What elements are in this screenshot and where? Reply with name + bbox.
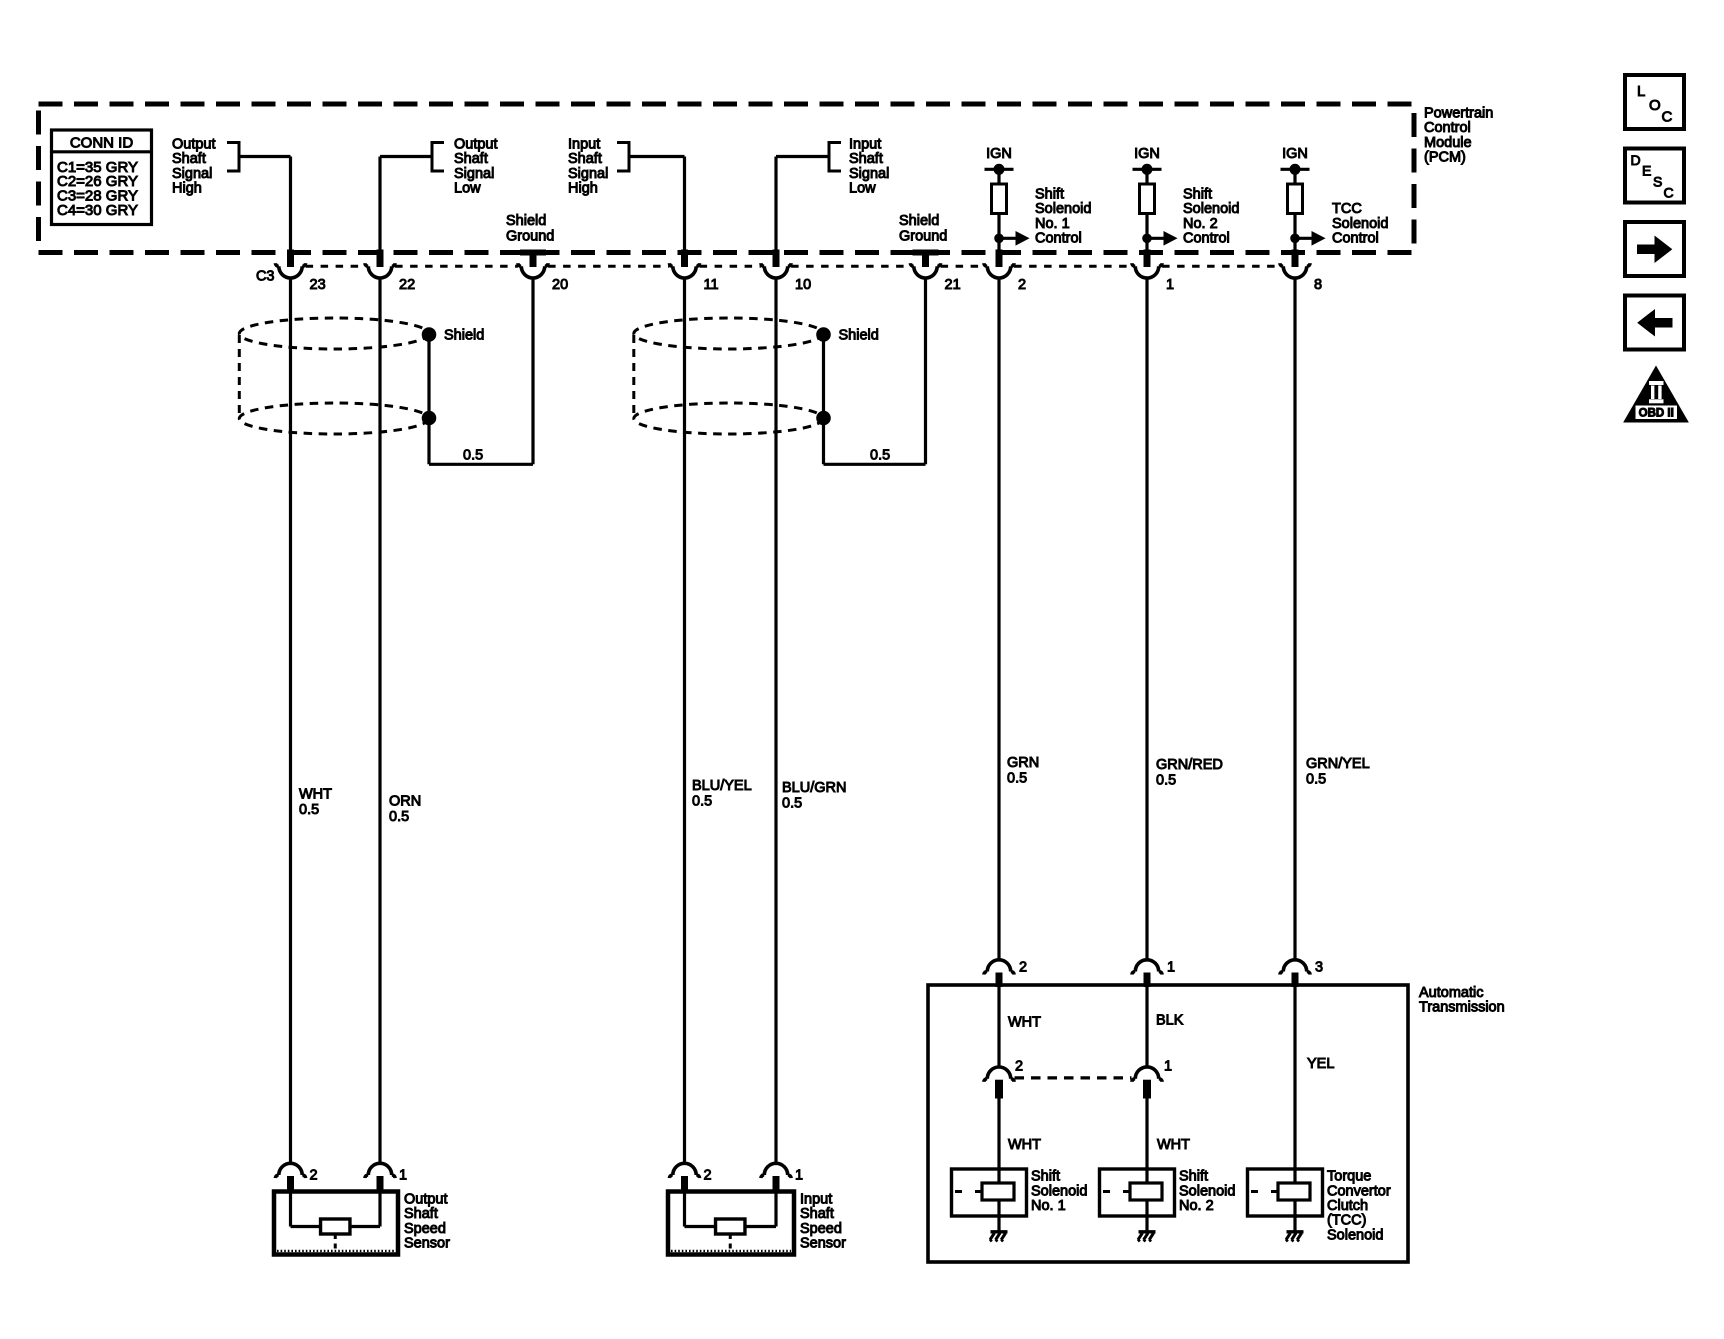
svg-text:2: 2 [1015,1059,1023,1075]
svg-text:BLK: BLK [1156,1013,1184,1029]
svg-text:(TCC): (TCC) [1327,1213,1366,1229]
solenoid Shift No. 2 box [1100,1169,1175,1216]
shield ground pigtail stub at border (pin 20) [521,250,546,255]
solenoid coil [1278,1183,1310,1200]
connector C3 cavity 1 [1144,250,1150,267]
svg-text:0.5: 0.5 [1007,771,1027,787]
svg-text:1: 1 [399,1168,407,1184]
svg-text:TCC: TCC [1332,201,1362,217]
connector pin 1 of Input sensor [761,1163,791,1178]
svg-text:2: 2 [704,1168,712,1184]
svg-text:WHT: WHT [1008,1015,1041,1031]
svg-text:WHT: WHT [1157,1137,1190,1153]
connector C3 cavity 10 [773,250,779,267]
svg-text:0.5: 0.5 [463,448,483,464]
PCM driver (resistor) symbol at x=1295 [1288,184,1303,214]
wire BLK inside transmission [1145,987,1148,1068]
svg-text:Shaft: Shaft [568,151,602,167]
svg-text:Module: Module [1424,135,1472,151]
svg-text:0.5: 0.5 [1156,773,1176,789]
svg-text:IGN: IGN [986,146,1012,162]
wire BLU/GRN 0.5 (pin 10 to input sensor pin 1) [774,278,777,1163]
svg-text:22: 22 [399,277,415,293]
wire to pin 22 [432,143,444,172]
svg-text:Output: Output [404,1191,448,1207]
svg-text:Transmission: Transmission [1419,1000,1505,1016]
svg-text:D: D [1631,152,1641,168]
output arrow at x=999 [999,237,1017,240]
svg-text:Shaft: Shaft [454,151,488,167]
wire ORN 0.5 (pin 22 to output sensor pin 1) [378,278,381,1163]
solenoid coil [1130,1183,1162,1200]
svg-text:Signal: Signal [172,166,212,182]
transmission connector pin 1 [1132,960,1162,975]
svg-text:Solenoid: Solenoid [1183,201,1239,217]
svg-text:WHT: WHT [1008,1137,1041,1153]
wire YEL to TCC solenoid [1293,1169,1296,1183]
svg-text:0.5: 0.5 [782,796,802,812]
svg-text:Signal: Signal [454,166,494,182]
svg-text:Input: Input [800,1191,832,1207]
svg-text:Shift: Shift [1183,186,1212,202]
svg-text:No. 2: No. 2 [1183,216,1218,232]
svg-text:Shield: Shield [444,328,484,344]
wire to pin 23 [227,143,239,172]
svg-text:Shaft: Shaft [172,151,206,167]
svg-text:Powertrain: Powertrain [1424,105,1493,121]
svg-text:Shift: Shift [1035,186,1064,202]
connector pin 1 of Output sensor [365,1163,395,1178]
Output Shaft Speed Sensor box [274,1192,398,1255]
wire through solenoid [1145,1200,1148,1231]
wire GRN 0.5 (pin 2 to transmission pin 2) [997,278,1000,960]
svg-text:IGN: IGN [1282,146,1308,162]
svg-text:Shield: Shield [506,213,546,229]
wire GRN/RED 0.5 (pin 1 to transmission pin 1) [1145,278,1148,960]
svg-text:OBD II: OBD II [1639,408,1674,420]
svg-text:L: L [1637,83,1645,100]
solenoid TCC Solenoid box [1248,1169,1323,1216]
chassis ground [1287,1230,1304,1233]
svg-text:1: 1 [1164,1059,1172,1075]
connector C3 cavity 8 [1292,250,1298,267]
svg-text:10: 10 [795,277,811,293]
sensor coil (resistor) [716,1219,745,1234]
svg-text:Sensor: Sensor [404,1235,450,1251]
svg-text:ORN: ORN [389,793,421,809]
connector C3 cavity 22 [377,250,383,267]
svg-text:3: 3 [1315,960,1323,976]
svg-text:Low: Low [849,180,876,196]
icon back arrow box [1625,296,1684,350]
shield cylinder (dashed) around wire pair near x=334 [239,318,428,349]
sensor coil (resistor) [321,1219,350,1234]
svg-text:Shaft: Shaft [800,1206,834,1222]
svg-text:Ground: Ground [506,229,554,245]
solenoid Shift No. 1 box [952,1169,1027,1216]
svg-text:Output: Output [454,136,498,152]
svg-text:Shaft: Shaft [404,1206,438,1222]
icon forward arrow box [1625,222,1684,276]
svg-text:Ground: Ground [899,229,947,245]
svg-text:Clutch: Clutch [1327,1198,1368,1214]
svg-text:High: High [568,180,598,196]
icon DESC box [1625,149,1684,203]
transmission connector pin 3 [1280,960,1310,975]
wire WHT to shift solenoid 1 [997,1098,1000,1183]
icon OBD II triangle [1624,367,1688,423]
svg-text:Input: Input [849,136,881,152]
connector C3 cavity 21 [923,250,929,267]
svg-text:Solenoid: Solenoid [1327,1227,1383,1243]
PCM driver (resistor) symbol at x=999 [992,184,1007,214]
wire WHT to shift solenoid 2 [1145,1098,1148,1183]
svg-text:Shaft: Shaft [849,151,883,167]
svg-text:Convertor: Convertor [1327,1183,1391,1199]
connector C3 cavity 20 [530,250,536,267]
svg-text:0.5: 0.5 [1306,772,1326,788]
svg-text:Shift: Shift [1179,1169,1208,1185]
svg-text:IGN: IGN [1134,146,1160,162]
inner connector pin 1 [1132,1067,1162,1082]
svg-text:C4=30 GRY: C4=30 GRY [57,202,138,219]
PCM driver (resistor) symbol at x=1147 [1140,184,1155,214]
svg-text:C: C [1662,109,1673,126]
wire to pin 11 [617,143,629,172]
svg-text:Shield: Shield [839,328,879,344]
svg-text:0.5: 0.5 [870,448,890,464]
svg-text:2: 2 [310,1168,318,1184]
svg-text:2: 2 [1019,960,1027,976]
svg-text:Input: Input [568,136,600,152]
connector C3 cavity 11 [682,250,688,267]
svg-text:20: 20 [552,277,568,293]
output arrow at x=1147 [1147,237,1165,240]
svg-text:WHT: WHT [299,786,332,802]
PCM module dashed boundary [39,104,1415,253]
svg-text:Signal: Signal [568,166,608,182]
svg-text:1: 1 [1166,277,1174,293]
solenoid coil [982,1183,1014,1200]
svg-text:E: E [1642,163,1651,179]
shield cylinder (dashed) around wire pair near x=728.5 [634,318,823,349]
icon LOC box [1625,75,1684,129]
shield drain wire [822,335,825,465]
svg-text:C: C [1664,185,1674,201]
svg-text:GRN/YEL: GRN/YEL [1306,756,1370,772]
wire to pin 10 [829,143,841,172]
svg-text:8: 8 [1314,277,1322,293]
svg-text:Automatic: Automatic [1419,985,1483,1001]
svg-text:Solenoid: Solenoid [1031,1183,1087,1199]
wire GRN/YEL 0.5 (pin 8 to transmission pin 3) [1293,278,1296,960]
output arrow at x=1295 [1295,237,1313,240]
svg-text:0.5: 0.5 [299,802,319,818]
wire shield drain (pin 20) [531,278,534,464]
svg-text:Solenoid: Solenoid [1179,1183,1235,1199]
svg-text:YEL: YEL [1307,1056,1334,1072]
svg-text:Control: Control [1035,230,1082,246]
junction node at x=999 [995,234,1004,243]
wire through solenoid [1293,1200,1296,1231]
shield drain wire [427,335,430,465]
svg-text:(PCM): (PCM) [1424,149,1466,165]
svg-text:S: S [1653,174,1662,190]
svg-text:Speed: Speed [404,1221,446,1237]
svg-text:CONN ID: CONN ID [70,135,134,152]
svg-text:21: 21 [945,277,961,293]
svg-text:No. 1: No. 1 [1035,216,1070,232]
svg-text:No. 1: No. 1 [1031,1198,1066,1214]
chassis ground [1139,1230,1156,1233]
svg-text:Output: Output [172,136,216,152]
svg-text:BLU/GRN: BLU/GRN [782,780,846,796]
svg-text:High: High [172,180,202,196]
inner connector pin 2 [984,1067,1014,1082]
svg-text:11: 11 [704,277,719,293]
svg-text:Speed: Speed [800,1221,842,1237]
svg-text:GRN: GRN [1007,755,1039,771]
junction node at x=1147 [1143,234,1152,243]
svg-text:Control: Control [1424,120,1471,136]
svg-text:Sensor: Sensor [800,1235,846,1251]
sensor internal wiring [289,1193,292,1227]
sensor internal wiring [683,1193,686,1227]
Input Shaft Speed Sensor box [668,1192,794,1255]
svg-text:Torque: Torque [1327,1169,1371,1185]
shield ground pigtail stub at border (pin 21) [913,250,938,255]
wire through solenoid [997,1200,1000,1231]
connector C3 cavity 23 [288,250,294,267]
svg-text:Solenoid: Solenoid [1035,201,1091,217]
wire shield drain (pin 21) [924,278,927,464]
wire BLU/YEL 0.5 (pin 11 to input sensor pin 2) [683,278,686,1163]
svg-text:Shield: Shield [899,213,939,229]
svg-text:Solenoid: Solenoid [1332,216,1388,232]
svg-text:Shift: Shift [1031,1169,1060,1185]
dashed connector mating line [1015,1076,1132,1079]
Automatic Transmission box [928,985,1408,1262]
connector pin 2 of Output sensor [275,1163,305,1178]
svg-text:Low: Low [454,180,481,196]
svg-text:Control: Control [1183,230,1230,246]
connector C3 cavity 2 [996,250,1002,267]
connector pin 2 of Input sensor [669,1163,699,1178]
svg-text:No. 2: No. 2 [1179,1198,1214,1214]
svg-text:O: O [1649,97,1661,114]
svg-text:23: 23 [310,277,326,293]
svg-text:BLU/YEL: BLU/YEL [692,778,752,794]
svg-text:0.5: 0.5 [692,794,712,810]
svg-text:1: 1 [795,1168,803,1184]
svg-text:Signal: Signal [849,166,889,182]
transmission connector pin 2 [984,960,1014,975]
svg-text:0.5: 0.5 [389,809,409,825]
junction node at x=1295 [1291,234,1300,243]
shield node dots [817,328,831,342]
wire WHT inside transmission [997,987,1000,1068]
shield node dots [422,328,436,342]
svg-text:Control: Control [1332,230,1379,246]
connector C3 dotted interface line [306,265,365,268]
svg-text:C3: C3 [256,269,275,285]
svg-text:1: 1 [1167,960,1175,976]
CONN ID table [52,130,152,225]
wire WHT 0.5 (pin 23 to output sensor pin 2) [289,278,292,1163]
wire YEL inside transmission [1293,987,1296,1170]
chassis ground [991,1230,1008,1233]
svg-text:2: 2 [1018,277,1026,293]
svg-text:GRN/RED: GRN/RED [1156,757,1223,773]
